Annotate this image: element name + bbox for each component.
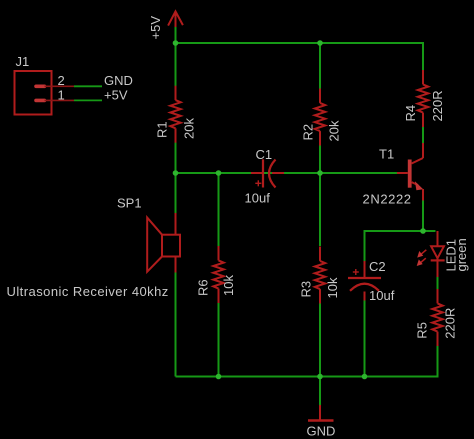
resistor R1 xyxy=(175,86,177,100)
LED1 emission arrows xyxy=(417,250,427,266)
svg-text:10uf: 10uf xyxy=(369,288,395,303)
svg-text:220R: 220R xyxy=(443,308,458,339)
svg-text:GND: GND xyxy=(104,73,133,88)
junction bottom rail / R6 xyxy=(216,374,222,380)
wire speaker top xyxy=(175,173,177,213)
wire emitter node horizontal xyxy=(365,230,436,232)
speaker SP1 (ultrasonic receiver) xyxy=(147,213,180,273)
J1 pin 1 stub xyxy=(36,99,45,103)
wire LED to R5 xyxy=(437,277,439,289)
junction top rail / R1 / power xyxy=(173,40,179,46)
wire net +5V from pin 1 xyxy=(74,99,102,101)
svg-text:10uf: 10uf xyxy=(245,191,271,206)
svg-text:C2: C2 xyxy=(369,259,386,274)
junction mid rail / R6 xyxy=(216,170,222,176)
svg-text:2N2222: 2N2222 xyxy=(363,191,412,206)
svg-text:220R: 220R xyxy=(430,90,445,121)
svg-text:10k: 10k xyxy=(221,275,236,296)
svg-text:+5V: +5V xyxy=(104,87,128,102)
wire C2 bottom xyxy=(364,301,366,377)
wire emitter down to junction xyxy=(422,201,424,232)
LED LED1 xyxy=(431,231,445,277)
capacitor C1 xyxy=(251,159,284,187)
wire R2 top xyxy=(319,43,321,89)
wire R3 top xyxy=(319,173,321,246)
wire C1 right xyxy=(284,172,320,174)
wire R2 bottom xyxy=(319,146,321,174)
svg-text:R3: R3 xyxy=(299,281,314,298)
resistor R3 xyxy=(319,247,321,261)
wire R5 bottom to rail xyxy=(437,346,439,378)
svg-text:green: green xyxy=(454,238,469,271)
svg-text:SP1: SP1 xyxy=(117,195,142,210)
wire GND stub xyxy=(319,377,321,406)
wire net GND from pin 2 xyxy=(74,85,102,87)
wire bottom rail (ground net) xyxy=(176,376,438,378)
C2 plus sign xyxy=(353,271,359,273)
wire middle rail (base net) xyxy=(176,172,398,174)
resistor R5 xyxy=(437,289,439,303)
wire top rail +5V net xyxy=(176,42,424,44)
svg-text:1: 1 xyxy=(58,87,65,102)
wire R6 bottom xyxy=(218,303,220,377)
wire C1 left xyxy=(176,172,252,174)
junction top rail / R2 xyxy=(317,40,323,46)
svg-text:C1: C1 xyxy=(256,147,273,162)
svg-text:J1: J1 xyxy=(16,54,30,69)
C1 plus sign xyxy=(255,182,261,184)
junction bottom rail / R3 / GND xyxy=(317,374,323,380)
resistor R2 xyxy=(319,89,321,103)
transistor T1 (NPN 2N2222) xyxy=(397,143,423,201)
wire R1 bottom lead xyxy=(175,143,177,174)
svg-text:GND: GND xyxy=(307,424,336,439)
wire R3 bottom xyxy=(319,303,321,377)
wire C2 top xyxy=(364,230,366,261)
junction emitter wire xyxy=(420,228,426,234)
J1 pin 2 stub xyxy=(36,85,45,89)
junction bottom rail / C2 xyxy=(362,374,368,380)
wire R4 bottom to collector xyxy=(422,127,424,144)
svg-text:20k: 20k xyxy=(327,120,342,141)
resistor R6 xyxy=(218,246,220,260)
wire speaker bottom to rail xyxy=(175,273,177,377)
svg-text:Ultrasonic Receiver 40khz: Ultrasonic Receiver 40khz xyxy=(7,284,169,299)
svg-text:R6: R6 xyxy=(196,279,211,296)
resistor R4 xyxy=(422,70,424,84)
wire top rail corner down to R4 xyxy=(422,42,424,70)
svg-text:R4: R4 xyxy=(403,105,418,122)
svg-text:R1: R1 xyxy=(155,121,170,138)
capacitor C2 xyxy=(348,261,381,301)
svg-text:20k: 20k xyxy=(182,118,197,139)
svg-text:+5V: +5V xyxy=(148,16,163,40)
ground symbol xyxy=(319,405,321,420)
wire power stub to top rail xyxy=(175,27,177,44)
svg-text:R2: R2 xyxy=(301,124,316,141)
svg-text:R5: R5 xyxy=(415,322,430,339)
junction mid rail / R2 / R3 xyxy=(317,170,323,176)
svg-text:T1: T1 xyxy=(379,147,394,162)
wire R1 top lead xyxy=(175,43,177,86)
wire R6 top xyxy=(218,173,220,246)
connector J1 body xyxy=(15,71,52,115)
svg-text:10k: 10k xyxy=(325,277,340,298)
junction mid rail / R1 / speaker xyxy=(173,170,179,176)
power +5V symbol (arrow) xyxy=(168,11,183,27)
svg-text:2: 2 xyxy=(58,73,65,88)
